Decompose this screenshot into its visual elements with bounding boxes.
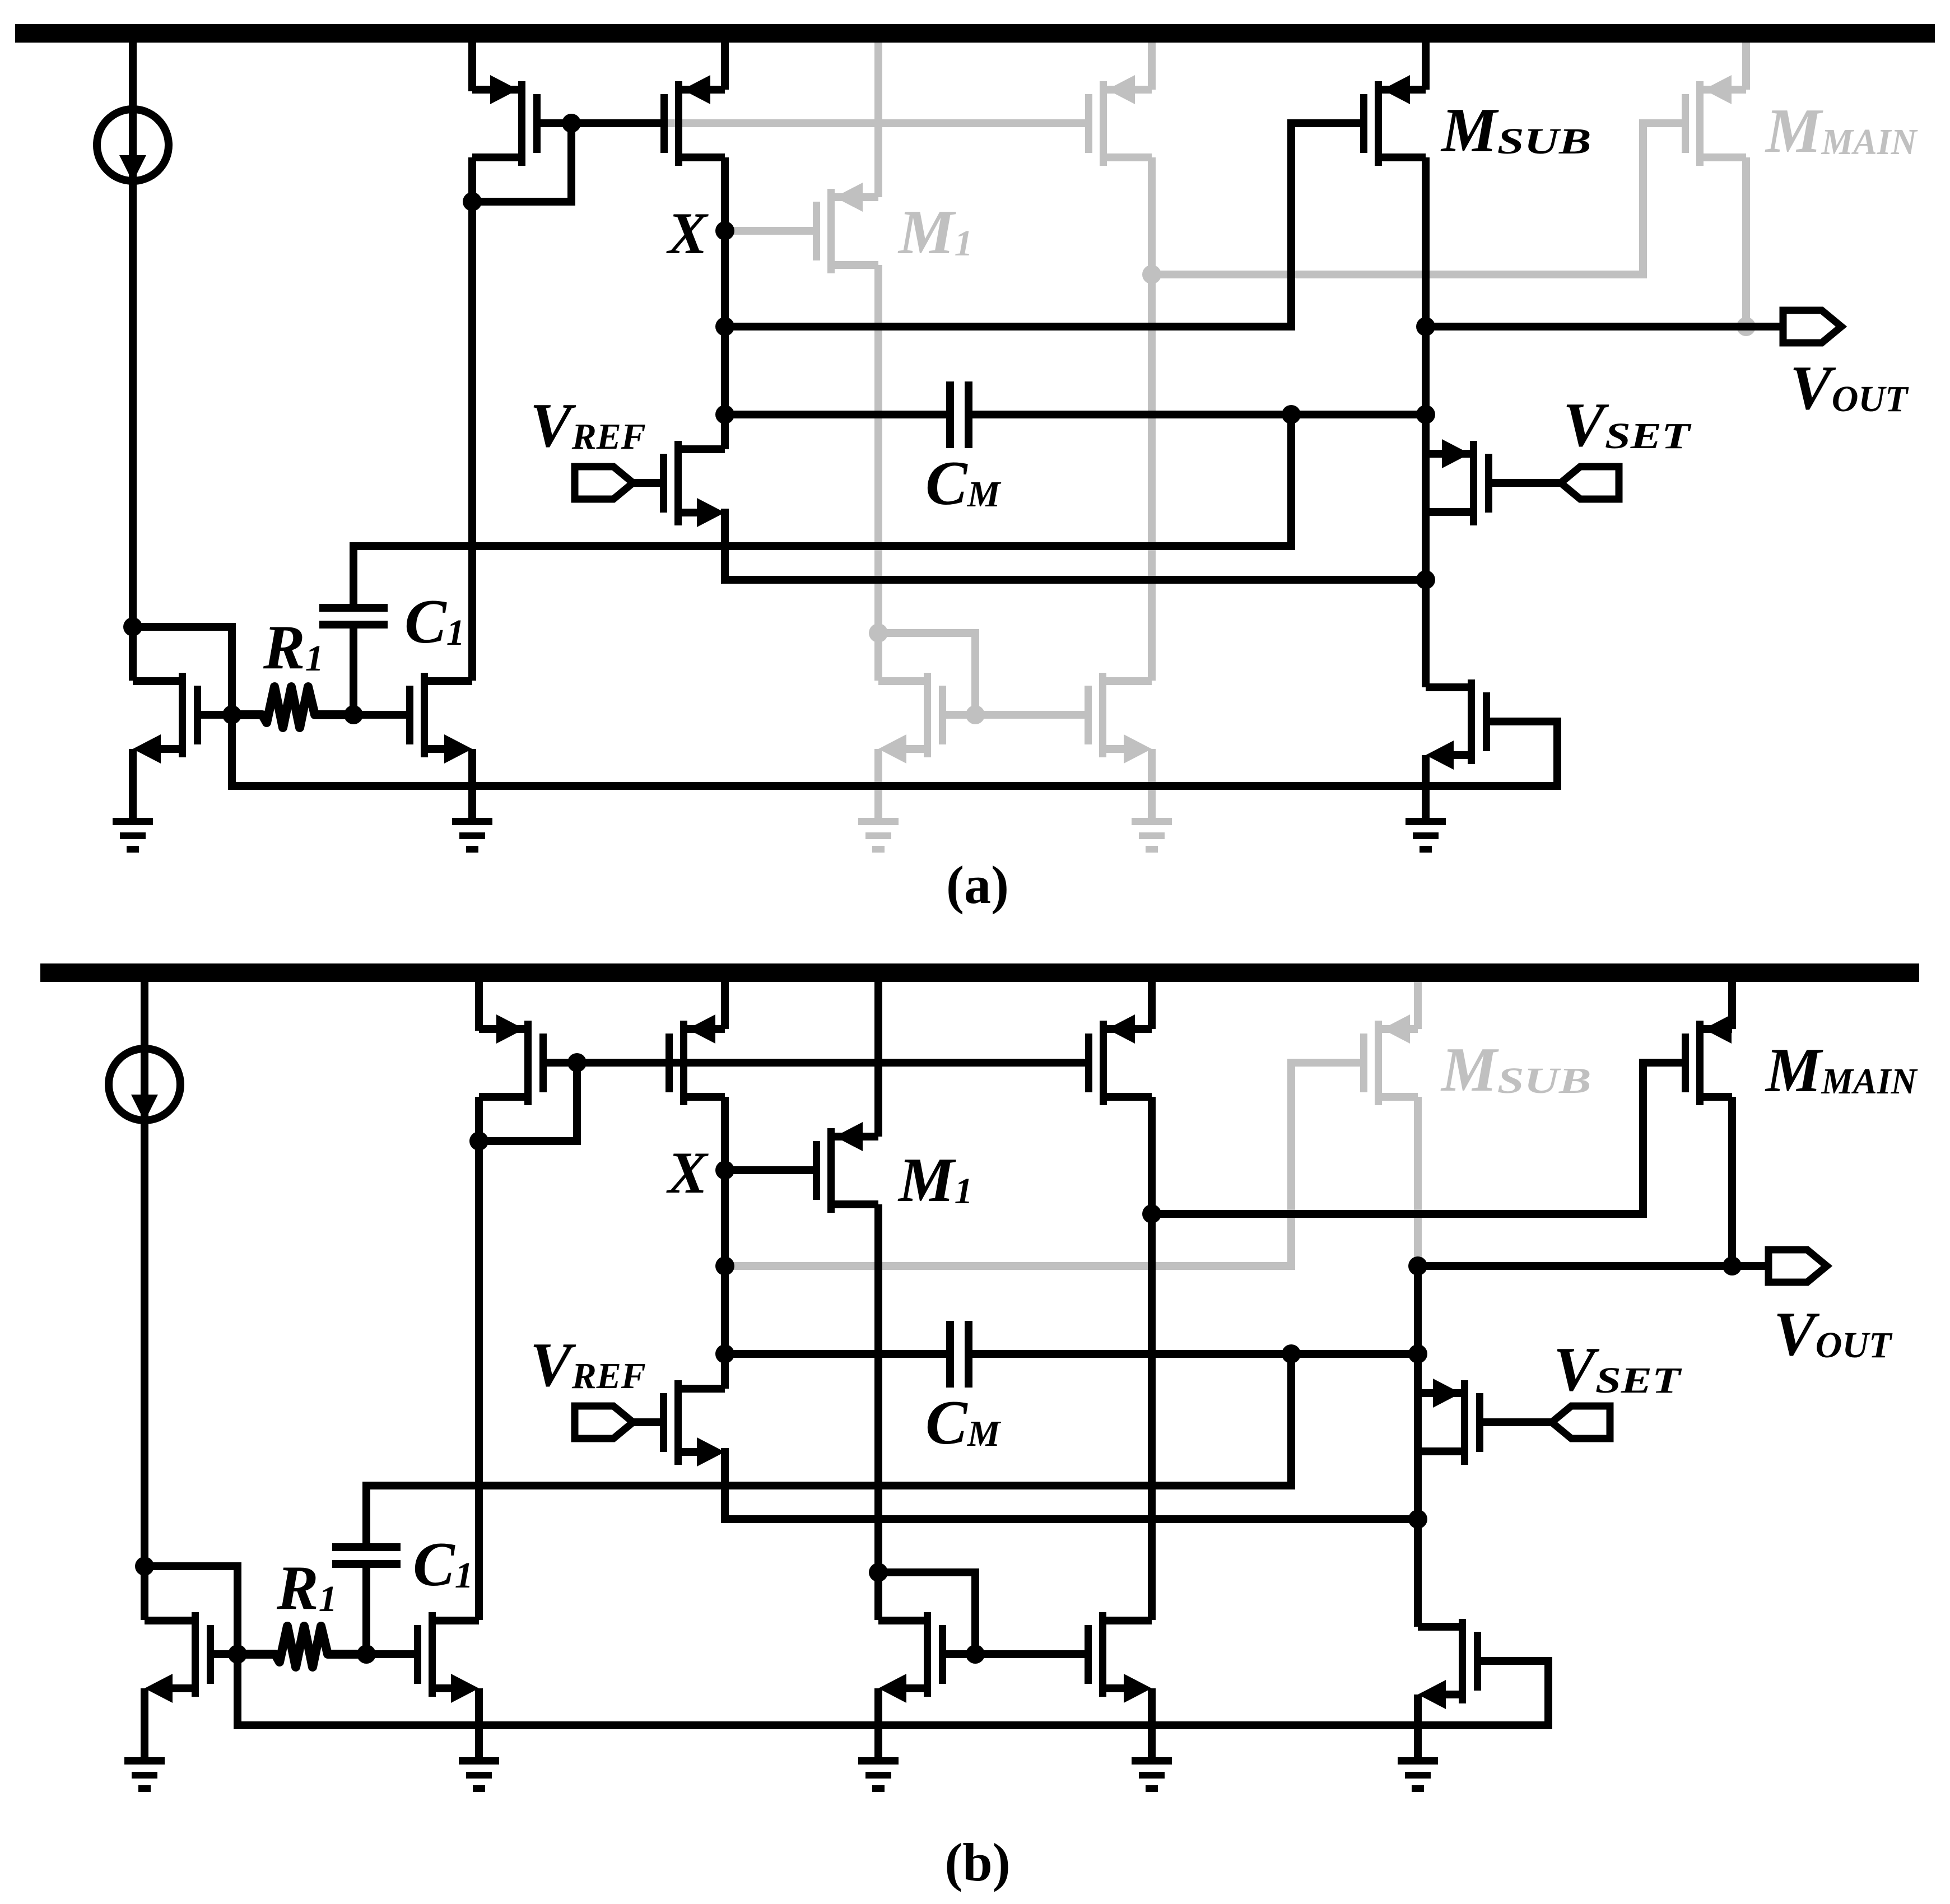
transistor N5 tail source (a) bbox=[1426, 679, 1557, 818]
node MMAIN/VOUT dot (a) bbox=[1737, 317, 1756, 336]
wire P1/P2 gate line (a) bbox=[541, 119, 660, 127]
caption (a) bbox=[946, 855, 1009, 915]
label M1 (b) bbox=[897, 1146, 973, 1215]
svg-text:(b): (b) bbox=[944, 1832, 1010, 1892]
wire P1 drain down to branch dot (b) bbox=[475, 1097, 483, 1141]
transistor MMAIN (b) bbox=[1682, 1014, 1732, 1105]
wire VDD to MSUB source (b) bbox=[1414, 982, 1422, 1029]
wire bottom rail (a) bbox=[232, 715, 1557, 786]
wire Miller line left (a) bbox=[725, 411, 946, 418]
ground under N4 (a) bbox=[1132, 818, 1172, 853]
node P1 drain dot (a) bbox=[463, 192, 482, 211]
transistor MMAIN (a) bbox=[1682, 75, 1746, 166]
transistor N1 bias mirror left (b) bbox=[145, 1612, 238, 1757]
node Miller/Msub-source dot (b) bbox=[1408, 1344, 1427, 1363]
label VSET (b) bbox=[1553, 1335, 1682, 1404]
wire VDD to P2 source (a) bbox=[721, 43, 729, 90]
node power gate tap dot (a) bbox=[1142, 265, 1161, 284]
transistor MSUB (a) bbox=[1360, 75, 1426, 166]
label MSUB (a) bbox=[1440, 96, 1591, 165]
wire VDD to MSUB source (a) bbox=[1422, 43, 1430, 90]
wire ND1 drain up to X branch (b) bbox=[721, 1354, 729, 1389]
wire VDD to P1 source (a) bbox=[468, 43, 476, 91]
transistor N2 bias mirror right (a) bbox=[353, 673, 472, 818]
bias current source IB (b) bbox=[109, 982, 180, 1620]
node Y riser dot (a) bbox=[1282, 405, 1301, 424]
node bias gate dot (a) bbox=[222, 705, 241, 724]
wire P2 drain to node X and stage1 (b) bbox=[721, 1097, 729, 1389]
transistor ND2 diff pair VSET (b) bbox=[1418, 1379, 1483, 1465]
svg-text:(a): (a) bbox=[946, 855, 1009, 915]
node M1 drain mirror dot (b) bbox=[869, 1563, 888, 1582]
wire C1 top to node Y riser (a) bbox=[353, 415, 1291, 546]
wire VDD to MMAIN source (b) bbox=[1728, 982, 1736, 1029]
wire MMAIN drain to VOUT (b) bbox=[1728, 1097, 1736, 1266]
wire ND1 drain up to X branch (a) bbox=[721, 415, 729, 449]
node mirror gate dot (b) bbox=[966, 1645, 985, 1664]
wire VDD to P3 source (a) bbox=[1148, 43, 1156, 90]
wire IB junction to bias gate riser (a) bbox=[133, 627, 232, 715]
wire Miller line left (b) bbox=[725, 1350, 946, 1358]
wire mirror gate line (a) bbox=[975, 711, 1085, 719]
wire branch vertical down to N2 drain (b) bbox=[475, 1141, 483, 1620]
wire mirror diode jog (a) bbox=[878, 633, 975, 715]
pin VOUT (b) bbox=[1769, 1250, 1827, 1282]
node X/MSUB-gate dot (a) bbox=[715, 317, 734, 336]
resistor R1 (a) bbox=[232, 687, 353, 728]
label X (a) bbox=[666, 201, 709, 266]
label CM (a) bbox=[925, 449, 1002, 518]
wire branch vertical down to N2 drain (a) bbox=[468, 202, 476, 681]
node P1 drain dot (b) bbox=[469, 1132, 488, 1151]
transistor ND2 diff pair VSET (a) bbox=[1426, 439, 1492, 525]
wire X branch to MSUB gate (a) bbox=[725, 123, 1360, 327]
wire X branch to MSUB gate (b) bbox=[725, 1063, 1360, 1266]
wire Miller line right (b) bbox=[972, 1350, 1418, 1358]
VDD power rail (b) bbox=[40, 963, 1919, 982]
wire PMOS mirror gate line to P3 (b) bbox=[672, 1059, 1088, 1067]
capacitor C1 (a) bbox=[319, 546, 388, 715]
wire P1/P2 gate line (b) bbox=[547, 1059, 665, 1067]
wire bottom rail (b) bbox=[238, 1654, 1548, 1725]
wire VDD to P3 source (b) bbox=[1148, 982, 1156, 1029]
label R1 (b) bbox=[276, 1553, 337, 1623]
transistor N4 stage2 mirror right (b) bbox=[1085, 1612, 1152, 1757]
wire VOUT node down to stage (a) bbox=[1422, 327, 1430, 687]
node X/MSUB-gate dot (b) bbox=[715, 1256, 734, 1275]
node X dot (b) bbox=[715, 1161, 734, 1180]
pin VREF (a) bbox=[575, 467, 660, 499]
wire C1 top to node Y riser (b) bbox=[366, 1354, 1291, 1486]
wire ND1 source to tail (a) bbox=[725, 513, 1426, 580]
transistor ND1 diff pair VREF (b) bbox=[660, 1380, 725, 1467]
node gate line dot (b) bbox=[567, 1053, 587, 1072]
bias current source IB (a) bbox=[97, 43, 169, 681]
node Miller/Msub-source dot (a) bbox=[1416, 405, 1435, 424]
wire M1 drain down to mirror (a) bbox=[874, 265, 882, 681]
label MMAIN (b) bbox=[1765, 1036, 1918, 1105]
wire P1 diode loop to gate line (b) bbox=[479, 1063, 577, 1141]
transistor P2 mirror (b) bbox=[665, 1014, 725, 1105]
node R1/C1 dot (a) bbox=[344, 705, 363, 724]
ground under N1 (b) bbox=[124, 1757, 165, 1792]
resistor R1 (b) bbox=[238, 1626, 366, 1667]
pin VREF (b) bbox=[575, 1406, 660, 1439]
node tail dot (b) bbox=[1408, 1510, 1427, 1529]
pin VOUT (a) bbox=[1783, 310, 1841, 343]
ground under N5 (b) bbox=[1398, 1757, 1438, 1792]
label VREF (a) bbox=[530, 391, 646, 460]
pin VSET (b) bbox=[1483, 1406, 1610, 1439]
wire power gate tap to MMAIN gate (a) bbox=[1152, 123, 1682, 274]
label M1 (a) bbox=[897, 198, 973, 267]
node X/Miller dot (b) bbox=[715, 1344, 734, 1363]
wire X to M1 gate (b) bbox=[725, 1166, 813, 1174]
label R1 (a) bbox=[263, 613, 324, 682]
wire P2 drain to node X and stage1 (a) bbox=[721, 157, 729, 449]
label X (b) bbox=[666, 1140, 709, 1205]
node IB/mirror junction dot (a) bbox=[123, 617, 142, 636]
transistor N4 stage2 mirror right (a) bbox=[1085, 673, 1152, 818]
wire ND1 source to tail (b) bbox=[725, 1452, 1418, 1519]
wire IB junction to bias gate riser (b) bbox=[145, 1566, 238, 1654]
transistor N3 stage2 mirror left (a) bbox=[878, 673, 975, 818]
wire VDD to MMAIN source (a) bbox=[1742, 43, 1750, 90]
VDD power rail (a) bbox=[15, 24, 1935, 43]
label C1 (a) bbox=[404, 587, 465, 657]
ground under N4 (b) bbox=[1132, 1757, 1172, 1792]
wire X to M1 gate (a) bbox=[725, 227, 813, 235]
node Y riser dot (b) bbox=[1282, 1344, 1301, 1363]
wire power gate tap to MMAIN gate (b) bbox=[1152, 1063, 1682, 1214]
wire VOUT line (b) bbox=[1418, 1262, 1769, 1270]
node R1/C1 dot (b) bbox=[357, 1645, 376, 1664]
pin VSET (a) bbox=[1492, 467, 1619, 499]
node MSUB/VOUT dot (b) bbox=[1408, 1256, 1427, 1275]
ground under N5 (a) bbox=[1406, 818, 1446, 853]
transistor P3 stage2 load (b) bbox=[1085, 1014, 1152, 1105]
svg-text:X: X bbox=[666, 1140, 709, 1205]
label MMAIN (a) bbox=[1765, 96, 1918, 166]
wire VDD to M1 source (b) bbox=[874, 982, 882, 1137]
label VOUT (a) bbox=[1790, 353, 1909, 423]
transistor M1 (a) bbox=[813, 183, 878, 273]
node X dot (a) bbox=[715, 221, 734, 240]
wire P3 drain down to N4 (a) bbox=[1148, 157, 1156, 681]
node mirror gate dot (a) bbox=[966, 705, 985, 724]
transistor MSUB (b) bbox=[1360, 1014, 1418, 1105]
ground under N3 (a) bbox=[858, 818, 899, 853]
transistor M1 (b) bbox=[813, 1122, 878, 1213]
wire mirror gate line (b) bbox=[975, 1650, 1085, 1658]
node MMAIN/VOUT dot (b) bbox=[1723, 1256, 1742, 1275]
transistor N5 tail source (b) bbox=[1418, 1619, 1548, 1757]
wire VDD to P2 source (b) bbox=[721, 982, 729, 1029]
transistor N2 bias mirror right (b) bbox=[366, 1612, 479, 1757]
wire MSUB drain to VOUT node (b) bbox=[1414, 1097, 1422, 1266]
wire PMOS mirror gate line to P3 (a) bbox=[667, 119, 1088, 127]
wire MSUB drain to VOUT node (a) bbox=[1422, 157, 1430, 327]
wire P3 drain down to N4 (b) bbox=[1148, 1097, 1156, 1620]
transistor P1 diode-connected load (a) bbox=[472, 75, 541, 166]
transistor N1 bias mirror left (a) bbox=[133, 673, 232, 818]
wire VDD to P1 source (b) bbox=[475, 982, 483, 1031]
label CM (b) bbox=[925, 1388, 1002, 1458]
wire M1 drain down to mirror (b) bbox=[874, 1204, 882, 1620]
ground under N3 (b) bbox=[858, 1757, 899, 1792]
capacitor C1 (b) bbox=[332, 1486, 401, 1654]
label VOUT (b) bbox=[1774, 1300, 1893, 1369]
capacitor CM (b) bbox=[946, 1321, 972, 1388]
label VREF (b) bbox=[530, 1330, 646, 1400]
ground under N1 (a) bbox=[113, 818, 153, 853]
node power gate tap dot (b) bbox=[1142, 1204, 1161, 1223]
transistor N3 stage2 mirror left (b) bbox=[878, 1612, 975, 1757]
node gate line dot (a) bbox=[562, 114, 581, 133]
node MSUB/VOUT dot (a) bbox=[1416, 317, 1435, 336]
label C1 (b) bbox=[413, 1530, 473, 1599]
transistor P2 mirror (a) bbox=[660, 75, 725, 166]
transistor ND1 diff pair VREF (a) bbox=[660, 441, 725, 527]
wire P1 drain down to branch dot (a) bbox=[468, 157, 476, 202]
node tail dot (a) bbox=[1416, 570, 1435, 589]
wire VOUT line (a) bbox=[1426, 323, 1783, 330]
node X/Miller dot (a) bbox=[715, 405, 734, 424]
node bias gate dot (b) bbox=[228, 1645, 247, 1664]
label VSET (a) bbox=[1563, 390, 1692, 460]
svg-text:X: X bbox=[666, 201, 709, 266]
wire mirror diode jog (b) bbox=[878, 1572, 975, 1654]
caption (b) bbox=[944, 1832, 1010, 1892]
ground under N2 (b) bbox=[459, 1757, 499, 1792]
wire P1 diode loop to gate line (a) bbox=[472, 123, 571, 202]
wire Miller line right (a) bbox=[972, 411, 1426, 418]
ground under N2 (a) bbox=[452, 818, 492, 853]
node IB/mirror junction dot (b) bbox=[135, 1557, 154, 1576]
transistor P1 diode-connected load (b) bbox=[479, 1014, 547, 1105]
transistor P3 stage2 load (a) bbox=[1085, 75, 1152, 166]
label MSUB (b) bbox=[1440, 1035, 1591, 1105]
wire VOUT node down to stage (b) bbox=[1414, 1266, 1422, 1627]
wire VDD to M1 source (a) bbox=[874, 43, 882, 197]
wire MMAIN drain to VOUT (a) bbox=[1742, 157, 1750, 327]
node M1 drain mirror dot (a) bbox=[869, 623, 888, 643]
capacitor CM (a) bbox=[946, 381, 972, 448]
